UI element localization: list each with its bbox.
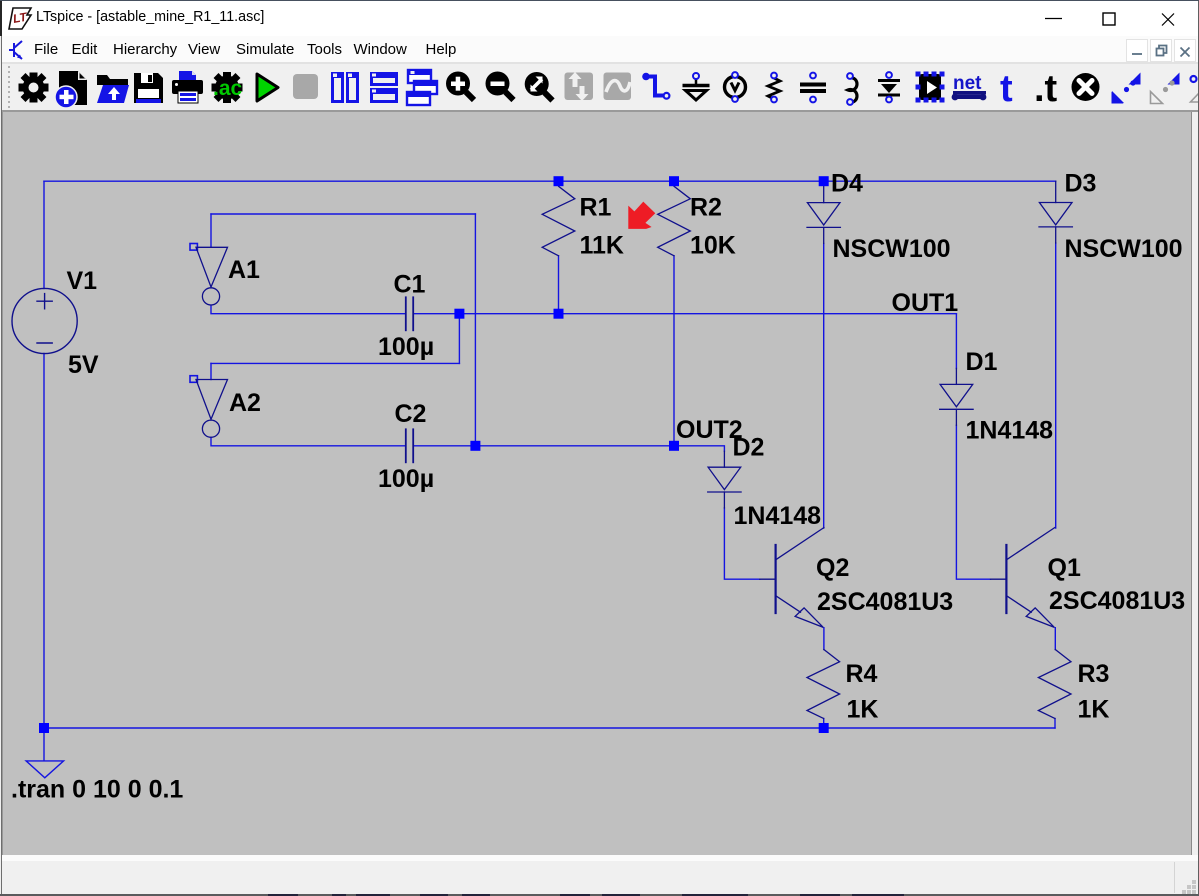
wire R4 bottom stub [823,719,825,729]
icon ground [683,73,710,100]
icon undo (partial) [1191,76,1199,102]
wire Q1 emitter to R3 [1054,628,1056,650]
svg-text:1K: 1K [847,696,879,724]
transistor Q2 [760,528,824,628]
svg-text:1K: 1K [1078,696,1110,724]
wire C1 to OUT1 corner [414,313,957,315]
menu doc icon (blue transistor) [8,39,26,62]
svg-text:A2: A2 [229,389,261,417]
svg-text:.ac: .ac [213,77,243,100]
svg-text:net: net [953,73,982,94]
svg-text:.tran 0 10 0 0.1: .tran 0 10 0 0.1 [11,776,183,804]
cursor red arrow [628,202,655,229]
svg-text:R1: R1 [580,194,612,222]
wire A2 input [210,363,212,379]
wire A1 feedback right [474,214,476,446]
icon voltage source [725,72,746,102]
resistor R3 [1038,650,1071,719]
icon cascade [407,70,437,105]
svg-text:R4: R4 [846,660,878,688]
wire OUT2 to D2 [674,446,724,451]
icon move [1112,73,1141,104]
svg-text:100µ: 100µ [378,465,434,493]
icon print [172,71,203,103]
resistor R1 [542,181,575,256]
diode D4 [807,187,840,244]
wire A1 output [211,305,405,313]
node junction top D4 [819,176,829,186]
svg-text:A1: A1 [228,256,260,284]
icon capacitor [800,73,826,103]
icon resistor [768,73,780,103]
icon net label [952,73,987,100]
window buttons [1030,1,1190,36]
wire V1 top lead [43,181,45,288]
icon zoom out [486,72,514,101]
wire A2 feedback top [211,362,459,364]
icon waveform (disabled) [604,73,632,101]
node junction top R2 [669,176,679,186]
svg-text:D3: D3 [1065,170,1097,198]
ground [26,761,64,778]
wire A1 input [210,214,212,247]
resize grip [1182,880,1198,894]
node junction top R1 [554,176,564,186]
wire R1 bottom lead [558,256,560,314]
wire C1 node down [458,314,460,364]
wire OUT1 down to D1 [955,314,957,369]
icon tile vertical [331,72,359,103]
svg-text:11K: 11K [580,232,624,260]
svg-text:V1: V1 [67,267,98,295]
capacitor C1 [406,297,413,330]
wire R2 bottom lead [673,256,675,446]
icon .ac gear [212,72,243,103]
node junction C1 out [454,309,464,319]
icon diode [878,72,900,102]
capacitor C2 [406,429,413,462]
inverter A1 [190,244,228,306]
svg-text:1N4148: 1N4148 [966,417,1054,445]
svg-text:1N4148: 1N4148 [734,502,822,530]
node junction R4 bottom [819,723,829,733]
wire V1 bottom lead [43,354,45,729]
svg-text:C2: C2 [395,400,427,428]
node junction R1 OUT1 [554,309,564,319]
icon drag [1151,73,1180,104]
icon run [257,74,278,101]
svg-text:100µ: 100µ [378,333,434,361]
icon open [97,75,129,103]
wire D3 to Q1 collector [1055,243,1057,528]
transistor Q1 [991,528,1055,628]
wire ground stub [43,728,45,761]
wire D4 to Q2 collector [823,243,825,528]
icon zoom full extents [525,72,553,101]
diode D1 [940,368,973,425]
svg-text:R3: R3 [1078,660,1110,688]
wire D2 to Q2 base [724,508,759,579]
icon save [134,73,163,103]
icon autorange (disabled) [565,72,594,101]
toolbar drag handle dots [8,66,10,108]
icon wire [642,73,669,99]
svg-text:C1: C1 [394,271,426,299]
icon delete [1072,73,1100,101]
MDI child window buttons [1125,38,1199,63]
wire D1 to Q1 base [956,425,990,579]
wire Q2 emitter to R4 [823,628,825,650]
resistor R2 [658,181,691,256]
icon halt (disabled) [293,74,318,99]
diode D2 [708,451,741,508]
icon component [916,72,945,103]
svg-text:R2: R2 [690,194,722,222]
svg-text:2SC4081U3: 2SC4081U3 [1049,587,1185,615]
svg-text:OUT2: OUT2 [676,416,743,444]
LTspice logo [7,6,33,31]
svg-text:5V: 5V [68,351,99,379]
svg-text:.t: .t [1034,68,1058,110]
node junction ground corner [39,723,49,733]
svg-text:t: t [1000,68,1013,110]
icon tile horizontal [370,72,398,103]
icon new schematic [55,71,87,108]
node junction OUT2 [669,441,679,451]
inverter A2 [190,376,228,438]
wire A2 output [211,438,405,446]
node junction C2 out [470,441,480,451]
icon settings gear [19,73,49,103]
svg-text:Q2: Q2 [816,554,849,582]
icon zoom in [446,72,474,101]
icon inductor [847,73,857,105]
voltage source V1 [12,288,77,353]
wire C2 to OUT2 [414,445,674,447]
svg-text:NSCW100: NSCW100 [1065,235,1183,263]
wire bottom rail [44,727,1055,729]
wire R3 bottom stub [1054,719,1056,729]
svg-text:OUT1: OUT1 [892,289,959,317]
svg-text:D4: D4 [831,170,863,198]
svg-text:NSCW100: NSCW100 [833,235,951,263]
svg-text:Q1: Q1 [1048,554,1081,582]
resistor R4 [807,650,840,719]
svg-text:2SC4081U3: 2SC4081U3 [817,588,953,616]
wire A1 feedback top [211,213,475,215]
taskbar sliver marks [0,894,1199,896]
svg-text:D1: D1 [966,348,998,376]
diode D3 [1039,181,1072,243]
svg-text:10K: 10K [690,232,736,260]
wire top rail [44,180,1056,182]
